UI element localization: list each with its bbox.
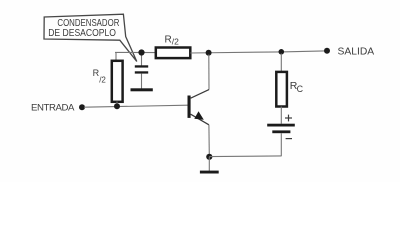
wire emitter drop: [208, 125, 210, 156]
resistor RC: [276, 72, 287, 107]
svg-text:/2: /2: [99, 76, 106, 85]
svg-text:/2: /2: [172, 37, 179, 47]
wire left R/2 bottom stub: [116, 102, 118, 107]
wire input rail: [84, 105, 188, 107]
wire top rail middle: [190, 52, 281, 53]
resistor R/2 horizontal: [156, 48, 191, 59]
wire RC bottom stub: [280, 107, 282, 124]
transistor Q1: [188, 90, 210, 125]
terminal ENTRADA: [79, 104, 85, 110]
node collector junction: [206, 50, 212, 56]
node RC junction: [279, 49, 285, 55]
node capacitor / top rail: [138, 49, 144, 55]
resistor R/2 left: [112, 61, 123, 102]
node emitter junction: [206, 154, 212, 160]
ground main: [200, 171, 219, 174]
wire battery bottom: [280, 133, 282, 156]
wire ground stub: [208, 157, 210, 171]
label R/2 top: [165, 34, 180, 46]
svg-text:R: R: [165, 34, 172, 45]
wire top rail left: [115, 51, 157, 53]
callout box CONDENSADOR DE DESACOPLO: [44, 14, 137, 61]
capacitor C decoupling: [135, 53, 148, 89]
ground below capacitor: [131, 88, 153, 91]
label RC: [290, 80, 304, 94]
wire RC top stub: [280, 54, 282, 72]
node input / R junction: [114, 103, 120, 109]
wire collector riser: [208, 55, 210, 90]
wire left R/2 top stub: [115, 52, 117, 61]
wire top rail right: [281, 51, 324, 52]
svg-text:DE DESACOPLO: DE DESACOPLO: [48, 28, 116, 39]
battery B1: [267, 115, 295, 139]
wire emitter to battery: [209, 155, 281, 158]
terminal SALIDA: [324, 48, 330, 54]
svg-text:ENTRADA: ENTRADA: [31, 102, 75, 113]
svg-text:C: C: [297, 84, 304, 94]
svg-text:SALIDA: SALIDA: [338, 47, 375, 58]
label R/2 left: [93, 68, 107, 85]
